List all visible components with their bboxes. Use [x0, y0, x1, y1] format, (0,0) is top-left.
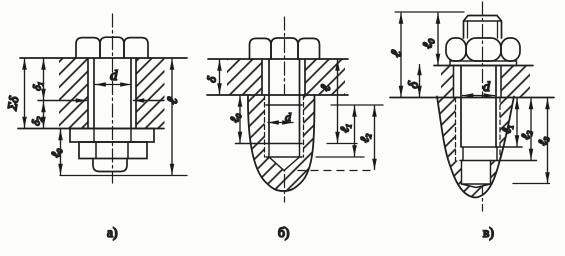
dimension l total (a) [171, 59, 173, 175]
dimension delta2 (a) [43, 102, 45, 128]
stud top extension line v [395, 11, 464, 13]
hex head screw b [250, 38, 272, 59]
nut facet lines a [95, 142, 97, 159]
plate hatch right block v [501, 66, 530, 98]
hole thread dashed left v [455, 98, 457, 161]
plate top line v [434, 65, 533, 67]
hole bottom line v [462, 184, 491, 188]
svg-text:ℓ3: ℓ3 [535, 135, 551, 146]
hole bottom dashed extension b [298, 170, 375, 172]
empty thread hole wall right v [496, 147, 498, 161]
svg-text:ℓ1: ℓ1 [337, 122, 353, 133]
dimension Sigma-delta (a) [24, 59, 26, 128]
stud end chamfer line v [464, 20, 502, 22]
thread bottom line b [266, 156, 302, 158]
joint interface line left a [38, 100, 87, 102]
plate top line b [208, 58, 348, 60]
plate bottom line a [18, 128, 164, 130]
svg-text:δ: δ [204, 75, 219, 83]
bolt shank through washer a [93, 129, 95, 143]
dimension l0 (b) [239, 96, 241, 143]
screw tip line b [236, 143, 303, 145]
plate hatch right block b [305, 59, 345, 95]
plate hatch left block v [441, 66, 454, 98]
dimension delta (b) [219, 60, 221, 94]
stud tip line v [462, 146, 522, 148]
hole thread dashed left b [264, 95, 266, 157]
tapped hole white-out v [456, 98, 501, 188]
dimension d (b) [268, 122, 293, 124]
plate hatch left block b [227, 59, 262, 95]
svg-text:б): б) [278, 225, 289, 240]
dimension d (v) [463, 95, 495, 97]
screw shank right edge b [299, 59, 301, 144]
empty thread hole wall left v [462, 147, 464, 161]
thread bottom line v [460, 160, 537, 162]
centerline stud v [482, 2, 484, 211]
dimension l1 (b) [354, 106, 356, 156]
svg-text:ℓ0: ℓ0 [48, 147, 64, 158]
dimension l total (b) [337, 60, 339, 143]
thread bottom extension b [316, 156, 364, 158]
plate bottom line b [207, 94, 348, 96]
washer a [70, 129, 154, 143]
centerline screw b [284, 17, 286, 202]
svg-text:ℓ2: ℓ2 [357, 132, 373, 143]
stud end inner edges v [467, 21, 469, 38]
svg-text:ℓ2: ℓ2 [518, 129, 534, 140]
svg-text:Σδ: Σδ [4, 94, 22, 112]
svg-text:δ2: δ2 [30, 115, 44, 126]
svg-text:а): а) [107, 225, 118, 240]
hex head bolt a [76, 38, 100, 58]
bolt protruding tip a [93, 159, 127, 172]
nut v: three rounded facet lobes [446, 38, 466, 61]
washer v [450, 61, 517, 66]
thread boundary line on screw b [266, 104, 302, 106]
svg-text:ℓ0: ℓ0 [419, 37, 437, 50]
svg-text:ℓ: ℓ [388, 49, 405, 59]
hole wall left a [87, 58, 89, 129]
drill hole wall left v [461, 161, 463, 185]
screw shank left edge b [268, 59, 270, 144]
dimension l2 (v) [530, 99, 532, 160]
hole wall right b [304, 59, 306, 95]
empty tapped hole walls b [268, 144, 270, 158]
boss dome b [248, 95, 315, 191]
bolt shank left edge a [93, 58, 95, 129]
stud protruding end v [464, 16, 502, 39]
dimension delta (v) [419, 65, 421, 97]
svg-text:d: d [483, 80, 491, 95]
joint interface line right a [134, 100, 165, 102]
centerline bolt a [112, 14, 114, 183]
hole wall right v [500, 66, 502, 98]
nut a [79, 142, 147, 159]
dimension l1 (v) [516, 99, 518, 147]
boss dome v [437, 97, 514, 198]
screw tip extension b [327, 143, 357, 145]
plate top line a [20, 57, 187, 59]
thread boundary extension b [331, 104, 383, 106]
dimension l total (v) [400, 13, 402, 97]
svg-text:d: d [285, 110, 292, 124]
dimension delta1 (a) [43, 59, 45, 100]
dimension l0 (a) [60, 130, 62, 175]
drill hole wall right v [490, 161, 492, 185]
drill cone b [269, 157, 300, 171]
tapped hole white-out b [265, 95, 304, 171]
hole wall left b [261, 59, 263, 95]
plate hatch right block a [136, 58, 165, 129]
svg-text:d: d [110, 68, 118, 84]
svg-text:ℓ0: ℓ0 [227, 112, 243, 123]
plate bottom line v [390, 97, 554, 99]
hole bottom extension v [513, 183, 550, 185]
hole thread dashed right v [499, 98, 501, 161]
stud shank left edge v [460, 66, 462, 148]
dimension l2 (b) [374, 106, 376, 170]
bolt shank right edge a [130, 58, 132, 129]
hole wall left v [453, 66, 455, 98]
dimension l0 (v) [437, 13, 439, 65]
svg-text:в): в) [483, 225, 494, 240]
bottom reference line a [60, 175, 187, 177]
plate hatch left block a [59, 58, 88, 129]
svg-text:ℓ: ℓ [164, 96, 181, 106]
dimension d (a) [95, 84, 131, 86]
hole thread dashed right b [303, 95, 305, 157]
stud shank right edge v [495, 66, 497, 148]
dimension l3 (v) [547, 99, 549, 184]
hole wall right a [135, 58, 137, 129]
